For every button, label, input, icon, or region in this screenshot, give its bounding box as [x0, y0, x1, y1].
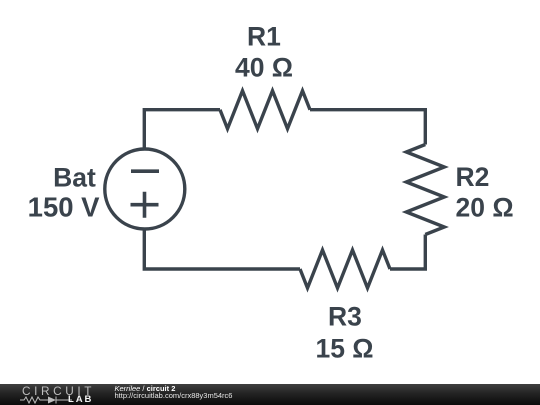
wire top-left (battery top to R1) — [144, 110, 220, 150]
wire bottom-left (R3 to battery bottom) — [144, 228, 300, 269]
wire top-right (R1 to R2) — [310, 110, 425, 145]
battery minus sign — [131, 169, 159, 173]
footer bar — [0, 384, 540, 405]
svg-text:R3: R3 — [328, 302, 362, 332]
wire bottom-right (R2 to R3) — [390, 235, 425, 270]
svg-text:Bat: Bat — [53, 163, 96, 193]
CircuitLab logo: LAB — [68, 394, 93, 405]
svg-text:150 V: 150 V — [28, 192, 101, 223]
CircuitLab logo: CIRCUIT — [22, 384, 95, 398]
resistor R1 — [220, 91, 310, 129]
CircuitLab logo squiggle (resistor + diode) — [20, 395, 72, 405]
svg-text:15 Ω: 15 Ω — [315, 334, 373, 364]
svg-text:R2: R2 — [456, 162, 490, 192]
svg-text:20 Ω: 20 Ω — [456, 193, 514, 223]
resistor R2 — [406, 145, 444, 235]
resistor R3 — [300, 250, 390, 288]
footer url line — [115, 391, 233, 400]
footer credit line — [115, 384, 176, 393]
svg-text:R1: R1 — [247, 22, 281, 52]
battery V1 circle — [105, 149, 185, 229]
battery plus sign — [131, 192, 159, 218]
svg-text:40 Ω: 40 Ω — [235, 53, 293, 83]
